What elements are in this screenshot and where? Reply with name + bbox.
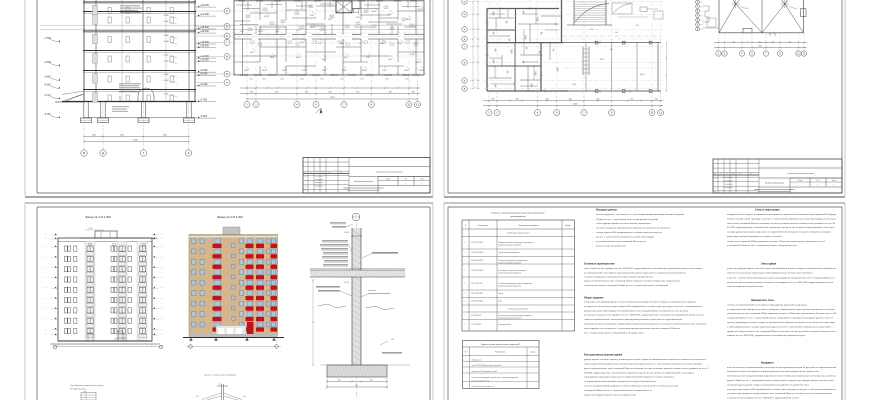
svg-text:+0.000: +0.000 (163, 80, 169, 82)
svg-text:щиной 150мм по гост с перевязк: щиной 150мм по гост с перевязкой швов и … (727, 379, 835, 382)
svg-text:2. Справочная документация: 2. Справочная документация (508, 309, 528, 311)
detail vertical centreline (356, 222, 358, 397)
svg-text:1.20: 1.20 (534, 72, 537, 74)
svg-text:по подготовленной поверхности: по подготовленной поверхности цоколь обл… (727, 308, 836, 311)
svg-text:4: 4 (537, 111, 539, 115)
svg-text:18.80: 18.80 (270, 57, 275, 59)
svg-text:25400: 25400 (573, 104, 578, 106)
svg-text:0.30: 0.30 (342, 70, 346, 72)
svg-text:-28 -28: -28 -28 (344, 282, 349, 284)
svg-text:Естественное и искусственное о: Естественное и искусственное освещение (499, 270, 527, 272)
svg-text:1.20: 1.20 (240, 31, 244, 33)
roof hips right (762, 4, 785, 33)
svg-text:11.50: 11.50 (410, 54, 414, 56)
svg-text:-2.400: -2.400 (44, 77, 51, 79)
svg-text:Конструктивы узлов: Конструктивы узлов (70, 389, 86, 391)
svg-text:ранитными плитами перекрытия и: ранитными плитами перекрытия из сборных … (727, 236, 783, 238)
svg-text:7.50: 7.50 (300, 42, 304, 44)
svg-text:Тур охл. / холодная шахта штук: Тур охл. / холодная шахта штукатурка (204, 375, 236, 377)
svg-text:Провер: Провер (304, 179, 309, 181)
svg-text:1. Нормативная документация: 1. Нормативная документация (507, 233, 530, 235)
svg-text:-1.710: -1.710 (44, 95, 51, 97)
svg-text:тливы из оцинкованной стали ок: тливы из оцинкованной стали окраска фаса… (584, 318, 683, 321)
title block sheet A (303, 158, 430, 194)
svg-text:еевом составе установка оконны: еевом составе установка оконных блоков и… (727, 281, 834, 284)
detail bottom dims (327, 381, 387, 383)
svg-text:И: И (464, 1, 466, 3)
sheet A building cross-section (40, 24, 424, 26)
svg-text:+0.000: +0.000 (163, 55, 169, 57)
svg-text:+0.00: +0.00 (160, 234, 163, 236)
title block sheet B (713, 159, 842, 193)
svg-text:Здания жилые многоквартирные: Здания жилые многоквартирные (499, 252, 520, 254)
svg-text:1: 1 (466, 365, 467, 367)
svg-text:6: 6 (751, 53, 753, 55)
sheet D frame (447, 207, 449, 400)
svg-text:6000: 6000 (163, 134, 167, 136)
svg-text:178-3: 178-3 (360, 79, 364, 81)
svg-text:-: - (592, 246, 593, 248)
svg-text:Подп: Подп (738, 173, 741, 175)
svg-text:Окна и двери: Окна и двери (761, 264, 777, 266)
svg-text:12: 12 (659, 111, 662, 115)
entrance stairs (81, 94, 84, 96)
svg-text:14.50: 14.50 (416, 62, 421, 64)
svg-text:Д: Д (697, 20, 698, 22)
svg-text:невых плит толщиной 80мм на кл: невых плит толщиной 80мм на клеевом сост… (727, 222, 836, 225)
detail annotation stack left (322, 239, 348, 242)
svg-text:на цементно песчаном растворе: на цементно песчаном растворе марки м100… (584, 306, 703, 308)
svg-text:Технические показатели жилого: Технические показатели жилого дома (787, 173, 813, 175)
svg-text:тонных плит толщиной 220мм опи: тонных плит толщиной 220мм опирание не м… (727, 240, 826, 243)
svg-text:-3.163: -3.163 (200, 115, 207, 118)
svg-text:Н.контр: Н.контр (714, 187, 719, 189)
svg-text:В: В (83, 151, 85, 155)
svg-text:Е: Е (697, 15, 698, 17)
svg-text:1.20: 1.20 (530, 84, 533, 86)
svg-text:178-1: 178-1 (320, 79, 324, 81)
detail right annotations (372, 251, 398, 254)
svg-text:3000: 3000 (474, 87, 477, 89)
svg-text:-: - (592, 241, 593, 243)
sheet C frame (36, 207, 38, 400)
svg-text:Утв: Утв (304, 189, 306, 191)
svg-text:проекту производства работ кла: проекту производства работ кладка из кер… (727, 322, 835, 324)
roof dimension rows (714, 42, 807, 44)
svg-text:9.00: 9.00 (250, 52, 254, 54)
svg-text:+0.00: +0.00 (44, 238, 47, 240)
svg-text:1: 1 (465, 283, 466, 285)
svg-text:из оцинкованной стали окраска: из оцинкованной стали окраска фасадными … (584, 271, 687, 274)
sheet B dimension rows (483, 100, 663, 102)
svg-text:7.00: 7.00 (275, 31, 279, 33)
svg-text:Двери деревянные: Двери деревянные (499, 324, 512, 326)
svg-text:Наименование документа: Наименование документа (519, 225, 539, 227)
svg-text:11: 11 (651, 111, 654, 115)
svg-text:10.00: 10.00 (310, 27, 315, 29)
roof vents (743, 28, 752, 33)
svg-text:+0.00: +0.00 (44, 318, 47, 320)
svg-text:ска фасадными красками за два: ска фасадными красками за два раза по по… (727, 231, 831, 234)
sheet D outer edge (443, 203, 445, 400)
svg-text:Б: Б (226, 73, 228, 76)
lift shaft ladder (582, 47, 584, 75)
svg-text:6: 6 (315, 102, 317, 106)
svg-text:ти цоколь облицевать керамогра: ти цоколь облицевать керамогранитными пл… (584, 276, 655, 278)
svg-text:высоте с заполнением вертикаль: высоте с заполнением вертикальных швов п… (596, 237, 655, 239)
svg-text:отливы из оцинкованной стали о: отливы из оцинкованной стали окраска фас… (727, 303, 808, 306)
svg-text:Н.контр: Н.контр (304, 186, 309, 188)
svg-text:15000: 15000 (133, 139, 138, 141)
svg-text:1.20: 1.20 (296, 30, 300, 32)
svg-text:3000: 3000 (596, 99, 599, 101)
svg-text:+0.00: +0.00 (44, 234, 47, 236)
facade entrance doors (118, 331, 123, 341)
svg-text:600: 600 (370, 379, 373, 381)
svg-text:4.50: 4.50 (398, 43, 402, 45)
svg-text:Г: Г (464, 46, 466, 48)
svg-text:2.00: 2.00 (328, 19, 332, 21)
plan windows (240, 73, 248, 75)
svg-text:1: 1 (465, 260, 466, 262)
svg-text:+0.00: +0.00 (83, 391, 87, 393)
svg-text:9: 9 (779, 53, 781, 55)
svg-text:178-4: 178-4 (385, 79, 389, 81)
svg-text:+0.00: +0.00 (160, 246, 163, 248)
svg-text:Д: Д (102, 151, 104, 155)
svg-text:+0.00: +0.00 (44, 334, 47, 336)
svg-text:А: А (226, 81, 228, 84)
svg-text:+0.00: +0.00 (160, 287, 163, 289)
svg-text:+0.000: +0.000 (163, 15, 169, 17)
colored facade building body (189, 235, 278, 338)
svg-text:Лист: Лист (405, 179, 408, 181)
svg-text:600: 600 (338, 379, 341, 381)
svg-text:В: В (226, 55, 228, 58)
detail left vert dim (312, 280, 314, 365)
svg-text:+0.00: +0.00 (44, 267, 47, 269)
svg-text:1.20: 1.20 (510, 50, 513, 52)
svg-text:Системы противопожарной защиты: Системы противопожарной защиты эвакуацио… (499, 282, 533, 285)
svg-text:изводства работ кладка из кера: изводства работ кладка из керамического … (727, 214, 837, 216)
svg-text:8: 8 (371, 102, 373, 106)
svg-text:поверхности цоколь облицевать: поверхности цоколь облицевать керамогран… (727, 371, 820, 373)
svg-text:творе марки м100 армированная: творе марки м100 армированная сетками че… (584, 364, 703, 366)
svg-text:3000: 3000 (630, 99, 633, 101)
svg-text:+0.00: +0.00 (160, 308, 163, 310)
roof hips left (719, 4, 736, 33)
svg-text:3000: 3000 (732, 41, 735, 43)
svg-text:Лис: Лис (726, 173, 729, 175)
svg-text:дки из пазогребневых плит толщ: дки из пазогребневых плит толщиной 80мм … (584, 367, 709, 370)
svg-text:а фасадными красками за два ра: а фасадными красками за два раза по подг… (584, 376, 675, 379)
svg-text:сущие конструкции здания согла: сущие конструкции здания согласно проект… (584, 394, 637, 396)
svg-text:2: 2 (496, 111, 498, 115)
svg-text:Полы: Полы (499, 301, 503, 303)
svg-text:Блоки оконные из поливинилхлор: Блоки оконные из поливинилхлоридных проф… (499, 314, 532, 317)
svg-text:0674-99 с двухкамерным стеклоп: 0674-99 с двухкамерным стеклопакетом под… (584, 371, 694, 374)
svg-text:+0.00: +0.00 (160, 267, 163, 269)
svg-text:№до: №до (732, 173, 735, 175)
svg-text:+0.0: +0.0 (219, 384, 222, 386)
svg-text:железобетонных плит толщиной 2: железобетонных плит толщиной 220мм опира… (727, 312, 837, 315)
sheet B stair flight (574, 1, 606, 3)
svg-text:+0.000: +0.000 (163, 74, 169, 76)
svg-text:А: А (188, 151, 190, 155)
svg-text:-2.10: -2.10 (390, 339, 394, 341)
svg-text:А: А (464, 87, 466, 90)
svg-text:3000: 3000 (758, 41, 761, 43)
svg-text:11: 11 (408, 102, 411, 106)
svg-text:1: 1 (465, 293, 466, 295)
svg-text:3000: 3000 (788, 41, 791, 43)
svg-text:5.00: 5.00 (302, 70, 306, 72)
svg-text:14.20: 14.20 (258, 31, 263, 33)
svg-text:+0.00: +0.00 (160, 277, 163, 279)
svg-text:674-99 с двухкамерным стеклопа: 674-99 с двухкамерным стеклопакетом подо… (727, 226, 835, 229)
svg-text:1: 1 (718, 53, 720, 55)
svg-text:Фасад в осях 12-1 В; фрагмент;: Фасад в осях 12-1 В; фрагмент; план АР (472, 370, 497, 373)
svg-text:3000: 3000 (250, 91, 254, 93)
sheet A floor plan (234, 1, 424, 75)
svg-text:ущие конструкции здания соглас: ущие конструкции здания согласно проекту… (727, 268, 837, 270)
svg-text:+0.00: +0.00 (160, 238, 163, 240)
svg-text:А: А (697, 28, 698, 31)
detail wall (352, 228, 361, 365)
svg-text:+0.00: +0.00 (160, 328, 163, 330)
svg-text:Разраб: Разраб (304, 176, 308, 178)
svg-text:К: К (697, 2, 698, 4)
svg-text:ГОСТ 21.501-2018: ГОСТ 21.501-2018 (471, 242, 483, 244)
svg-text:Изм: Изм (714, 173, 716, 175)
section dimension lines (84, 136, 189, 138)
svg-text:Е: Е (226, 35, 228, 38)
svg-text:1.20: 1.20 (556, 68, 559, 70)
svg-text:№до: №до (322, 172, 325, 174)
svg-text:1500: 1500 (355, 385, 358, 387)
svg-text:Изм: Изм (304, 172, 306, 174)
svg-text:4: 4 (296, 102, 298, 106)
svg-text:1: 1 (466, 386, 467, 388)
svg-text:4: 4 (741, 53, 743, 55)
svg-text:из пазогребневых плит толщиной: из пазогребневых плит толщиной 80мм на к… (596, 240, 647, 243)
svg-text:аловатными плитами толщиной 15: аловатными плитами толщиной 150мм по гос… (584, 284, 669, 287)
svg-text:+7.500: +7.500 (44, 38, 52, 40)
svg-text:6: 6 (556, 111, 558, 115)
svg-text:Стены и перегородки: Стены и перегородки (755, 210, 780, 212)
svg-text:+21.300: +21.300 (200, 13, 209, 16)
svg-text:Г: Г (226, 41, 228, 44)
svg-text:+0.00: +0.00 (44, 287, 47, 289)
svg-text:ка оконных блоков из пвх профи: ка оконных блоков из пвх профиля по гост… (584, 314, 705, 317)
arched opening (138, 88, 154, 102)
svg-text:3000: 3000 (92, 134, 96, 136)
svg-text:6.30: 6.30 (322, 70, 326, 72)
svg-text:N: N (465, 225, 467, 227)
svg-text:рукции здания согласно проекту: рукции здания согласно проекту производс… (584, 359, 707, 361)
svg-text:поверхности цоколь облицевать: поверхности цоколь облицевать керамогран… (584, 323, 707, 326)
svg-text:аном растворе марки м100 армир: аном растворе марки м100 армированная се… (727, 389, 837, 391)
svg-text:И: И (697, 6, 698, 8)
svg-text:+0.00: +0.00 (44, 298, 47, 300)
svg-text:5.40: 5.40 (382, 70, 386, 72)
svg-text:25400: 25400 (330, 97, 335, 99)
svg-text:СП 52.13330.2016: СП 52.13330.2016 (471, 270, 483, 272)
svg-text:Разраб: Разраб (714, 178, 718, 180)
plan axis bubbles (246, 1, 248, 75)
svg-text:и из пвх отливы из оцинкованно: и из пвх отливы из оцинкованной стали ок… (727, 366, 837, 369)
svg-text:+0.000: +0.000 (163, 35, 169, 37)
svg-text:1: 1 (465, 301, 466, 303)
svg-text:монтаж наружных стен выполнять: монтаж наружных стен выполнять с утеплен… (596, 213, 685, 216)
section axis circles (196, 10, 224, 12)
svg-text:3000: 3000 (389, 91, 393, 93)
svg-text:3.00: 3.00 (322, 59, 326, 61)
svg-text:178-1: 178-1 (249, 79, 253, 81)
svg-text:Листов: Листов (832, 180, 837, 182)
svg-text:3000: 3000 (474, 12, 477, 14)
svg-text:Фасад 12-1 М 1:200: Фасад 12-1 М 1:200 (85, 215, 111, 219)
svg-text:3.00: 3.00 (372, 11, 376, 13)
sheet B floor plan thick walls (487, 8, 559, 10)
section axis bubbles (83, 102, 85, 150)
svg-text:1: 1 (246, 102, 248, 106)
sheet B grid circles (462, 0, 467, 4)
svg-text:Фундамент: Фундамент (761, 361, 775, 364)
svg-text:3000: 3000 (474, 45, 477, 47)
svg-text:13.00: 13.00 (262, 70, 267, 72)
svg-text:+0.000: +0.000 (163, 61, 169, 63)
sheet B top-right annotations (612, 3, 632, 14)
svg-text:+4.500: +4.500 (44, 62, 52, 64)
svg-text:1: 1 (466, 371, 467, 373)
svg-text:12: 12 (803, 53, 806, 55)
svg-text:гост с перевязкой швов и анкер: гост с перевязкой швов и анкеровкой в не… (584, 331, 644, 334)
svg-text:и м100 армированная сетками че: и м100 армированная сетками через три ря… (727, 326, 831, 328)
svg-text:4.50: 4.50 (636, 25, 639, 27)
svg-text:+0.000: +0.000 (163, 21, 169, 23)
svg-text:3000: 3000 (546, 99, 549, 101)
facade windows and balconies (192, 239, 196, 244)
svg-text:7: 7 (765, 53, 767, 55)
svg-text:СП 17.13330.2017: СП 17.13330.2017 (471, 293, 483, 295)
detail lower-left annotations (316, 285, 340, 288)
upper band partitions and bathrooms (243, 8, 260, 10)
svg-text:Кол: Кол (720, 173, 722, 175)
svg-text:Кровли: Кровли (499, 293, 504, 295)
svg-text:+0.00: +0.00 (160, 256, 163, 258)
svg-text:Примеч.: Примеч. (565, 225, 571, 227)
svg-text:7: 7 (583, 111, 585, 115)
svg-text:кту производства работ кладка: кту производства работ кладка из керамич… (727, 384, 809, 386)
plan left edge ticks (233, 10, 234, 11)
chimney shaft detail (221, 384, 223, 400)
svg-text:-0.300: -0.300 (44, 85, 51, 87)
elevator shaft (336, 1, 352, 13)
svg-text:о высоте с заполнением вертика: о высоте с заполнением вертикальных швов… (727, 276, 836, 279)
small key detail box (81, 393, 96, 400)
svg-text:11: 11 (797, 53, 800, 55)
north arrow (320, 108, 323, 114)
svg-text:1.20: 1.20 (524, 36, 527, 38)
svg-text:Листов: Листов (420, 179, 425, 181)
plan dimension lines (240, 87, 420, 89)
svg-text:Дата: Дата (340, 172, 343, 174)
svg-text:1: 1 (465, 270, 466, 272)
svg-text:10.20: 10.20 (418, 9, 423, 11)
svg-text:-: - (592, 228, 593, 230)
svg-text:-: - (592, 219, 593, 221)
svg-text:Фасад 12-1 М 1:200: Фасад 12-1 М 1:200 (217, 215, 243, 219)
svg-text:1: 1 (356, 215, 357, 217)
svg-text:евом составе установка око: евом составе установка око (596, 246, 627, 248)
svg-text:0.50: 0.50 (344, 57, 348, 59)
svg-text:проектировании: проектировании (510, 216, 525, 218)
svg-text:178-3: 178-3 (280, 79, 284, 81)
svg-text:Технические показатели жилого: Технические показатели жилого дома (376, 172, 402, 174)
svg-text:Лист: Лист (465, 352, 468, 354)
svg-text:+0.00: +0.00 (44, 308, 47, 310)
svg-text:+0.00: +0.00 (44, 328, 47, 330)
svg-text:15.20: 15.20 (264, 16, 269, 18)
svg-text:Ведомость рабочих чертежей осн: Ведомость рабочих чертежей основного ком… (481, 343, 519, 346)
sheet B right vertical dim chain (666, 43, 668, 91)
svg-text:0.00: 0.00 (196, 396, 199, 398)
svg-text:1: 1 (465, 324, 466, 326)
detail top annotations (330, 222, 346, 225)
svg-text:1: 1 (834, 185, 835, 187)
svg-text:4.50: 4.50 (388, 59, 392, 61)
detail break marks (318, 304, 346, 308)
svg-text:12.00: 12.00 (572, 84, 576, 86)
svg-text:Общие сведения: Общие сведения (584, 296, 604, 299)
svg-text:1: 1 (488, 111, 490, 115)
facade entrance zone (216, 326, 246, 338)
apartment divider walls (242, 1, 244, 35)
svg-text:СП 29.13330.2011: СП 29.13330.2011 (471, 301, 483, 303)
sheet B outer edge (443, 0, 445, 196)
svg-text:и толщиной 150мм по гост с пер: и толщиной 150мм по гост с перевязкой шв… (727, 244, 798, 247)
svg-text:СП 50.13330.2012: СП 50.13330.2012 (471, 260, 483, 262)
svg-text:ГОСТ 475-2016: ГОСТ 475-2016 (471, 324, 481, 326)
svg-text:Узел 12-1; АС-00; деталь крепл: Узел 12-1; АС-00; деталь крепл. №2 (472, 385, 495, 388)
svg-text:6000: 6000 (120, 134, 124, 136)
svg-text:ых плит толщиной 220мм опирани: ых плит толщиной 220мм опирание не менее… (584, 385, 679, 388)
sheet A outer edge (24, 0, 26, 196)
svg-text:7.00: 7.00 (358, 43, 362, 45)
svg-text:Б: Б (464, 80, 466, 82)
svg-text:5.00: 5.00 (356, 17, 360, 19)
svg-text:14.50: 14.50 (244, 70, 249, 72)
roof grid circles (696, 0, 700, 4)
roof vent stars (736, 3, 740, 5)
svg-text:е конструкции здания согласно: е конструкции здания согласно проекту пр… (596, 223, 651, 225)
svg-text:3000: 3000 (328, 91, 332, 93)
worksheets table (463, 341, 540, 389)
svg-text:Наименование: Наименование (495, 352, 506, 354)
svg-text:Жилой многоквартирный дом: Жилой многоквартирный дом (765, 182, 784, 185)
svg-text:+31.60: +31.60 (88, 228, 93, 230)
svg-text:3000: 3000 (491, 99, 494, 101)
svg-text:Правила выполнения рабочей док: Правила выполнения рабочей докум. архите… (499, 241, 534, 244)
svg-text:рофиля по гост 30674-99 с двух: рофиля по гост 30674-99 с двухкамерным с… (727, 334, 805, 337)
svg-text:ородки из пазогребневых плит т: ородки из пазогребневых плит толщиной 80… (727, 330, 837, 333)
svg-text:Конструктивные решения здания: Конструктивные решения здания (584, 354, 623, 356)
svg-text:+0.000: +0.000 (163, 41, 169, 43)
svg-text:Г: Г (143, 151, 145, 155)
svg-text:ртикальных швов перегородки из: ртикальных швов перегородки из пазогребн… (584, 309, 689, 312)
svg-text:Жилой многоквартирный дом: Жилой многоквартирный дом (354, 180, 373, 183)
